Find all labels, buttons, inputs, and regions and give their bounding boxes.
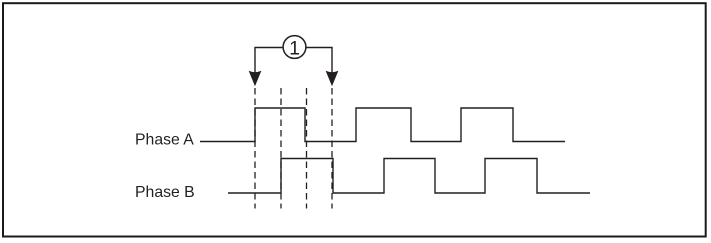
- Phase B waveform: [228, 159, 590, 194]
- arrowhead left: [249, 71, 261, 85]
- dashed line b (Phase B rising edge): [280, 88, 282, 209]
- Phase A waveform: [200, 108, 565, 142]
- svg-text:Phase A: Phase A: [135, 132, 194, 149]
- dashed line c (Phase A falling edge): [306, 88, 308, 209]
- svg-text:1: 1: [289, 38, 300, 60]
- svg-text:Phase B: Phase B: [135, 184, 195, 201]
- marker circle 1: [283, 36, 306, 59]
- dashed line d (Phase B falling edge): [331, 88, 333, 209]
- dashed line a (Phase A rising edge): [254, 88, 256, 209]
- arrowhead right: [326, 71, 338, 85]
- dimension bracket for marker 1: [255, 48, 332, 73]
